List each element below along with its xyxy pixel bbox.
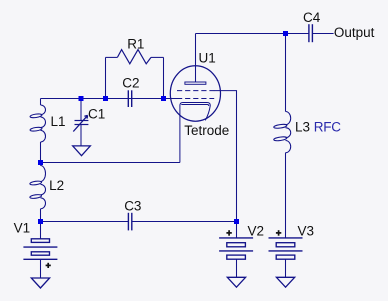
wire C1 to ground	[80, 125, 82, 146]
wire L2 bottom lead	[40, 209, 42, 222]
U1 cathode	[180, 103, 210, 163]
ground for V2	[227, 277, 245, 287]
svg-text:C3: C3	[124, 199, 141, 214]
wire R1 right vertical	[163, 57, 165, 98]
plus V1	[46, 264, 51, 266]
svg-text:V3: V3	[298, 224, 315, 239]
svg-text:Tetrode: Tetrode	[184, 123, 229, 138]
wire L2 top lead	[40, 163, 42, 166]
grid dashes control grid U1	[177, 98, 214, 100]
svg-text:L1: L1	[51, 114, 66, 129]
ground for V1	[31, 278, 49, 288]
svg-text:C2: C2	[122, 76, 139, 91]
wire L1 top corner	[40, 99, 42, 106]
svg-text:V2: V2	[248, 224, 265, 239]
wire C4 to Output	[312, 33, 333, 35]
wire R1 top left	[106, 56, 118, 58]
svg-text:C4: C4	[303, 10, 321, 25]
node at R1 left	[103, 96, 108, 101]
grid dashes screen grid U1	[177, 90, 214, 92]
node at C1 top	[79, 96, 84, 101]
U1 plate bar	[185, 82, 206, 84]
plus V2	[226, 232, 231, 234]
wire L1 bottom	[40, 142, 42, 163]
capacitor C2	[128, 90, 131, 107]
inductor L3 RFC	[286, 112, 291, 153]
wire screen grid to right rail	[214, 91, 237, 222]
inductor L1	[41, 105, 46, 142]
capacitor C3	[128, 213, 131, 231]
battery V3	[269, 238, 303, 259]
wire V1 to ground	[40, 259, 42, 278]
wire V3 to ground	[285, 259, 287, 277]
capacitor C4	[309, 24, 313, 42]
wire main grid horizontal	[41, 98, 178, 100]
wire L3 bottom to V3	[285, 153, 287, 238]
node at V2 top	[234, 219, 239, 224]
wire V1 lead top	[40, 222, 42, 239]
ground for C1	[73, 146, 91, 156]
plus V3	[276, 232, 281, 234]
wire L3 top lead	[285, 34, 287, 112]
node at V1 top	[38, 219, 43, 224]
node at R1 right / grid	[161, 96, 166, 101]
svg-text:U1: U1	[199, 50, 216, 65]
node at L3 top	[283, 31, 288, 36]
svg-text:V1: V1	[14, 221, 31, 236]
inductor L2	[41, 166, 46, 209]
svg-text:RFC: RFC	[314, 119, 341, 134]
wire V2 lead	[236, 222, 238, 238]
svg-text:L2: L2	[49, 178, 64, 193]
svg-text:R1: R1	[127, 37, 144, 52]
wire bottom left of C3	[41, 221, 129, 223]
capacitor C1 variable	[73, 115, 88, 131]
resistor R1	[117, 50, 151, 64]
svg-text:C1: C1	[88, 107, 105, 122]
wire bottom right of C3	[132, 221, 237, 223]
wire plate lead vertical	[195, 34, 197, 83]
node at L1/L2/cathode	[38, 160, 43, 165]
wire cathode horizontal	[41, 162, 180, 164]
battery V1	[23, 239, 57, 259]
tube U1 envelope	[170, 66, 220, 121]
wire C1 top lead	[80, 99, 82, 121]
battery V2	[219, 238, 253, 259]
wire V2 to ground	[236, 259, 238, 277]
wire R1 top right	[151, 56, 164, 58]
ground for V3	[276, 277, 294, 287]
wire top horizontal to C4	[196, 33, 309, 35]
wire R1 left vertical	[105, 57, 107, 98]
svg-text:L3: L3	[295, 119, 310, 134]
svg-text:Output: Output	[334, 25, 375, 40]
